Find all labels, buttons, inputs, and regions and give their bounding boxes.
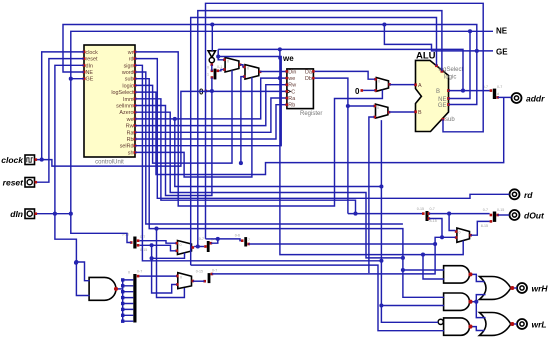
node G2-lower junction (379, 303, 383, 307)
wire AND A1 out to SP2 (118, 288, 123, 290)
svg-text:0: 0 (180, 243, 182, 247)
node muxC-out junction (196, 244, 200, 248)
node NE-label junction (468, 29, 472, 33)
wire mux MC out to S3 (194, 246, 204, 248)
svg-text:0: 0 (227, 60, 229, 64)
wire S2 out1 to mux MC in0 (140, 241, 176, 244)
svg-text:A: A (418, 83, 422, 89)
svg-text:sh: sh (128, 150, 134, 156)
wire net Ra (135, 98, 286, 132)
mux MC (175, 241, 194, 255)
svg-text:dOut: dOut (524, 211, 545, 221)
wire S2 out2 to junction and mux MC in1 (140, 245, 176, 251)
svg-text:dIn: dIn (86, 63, 94, 69)
svg-text:selImm: selImm (116, 104, 134, 110)
wire mux MD select loop (157, 229, 185, 298)
wire net rd (to rd output) (135, 59, 510, 199)
mux M1 (ALU A input) (374, 78, 391, 92)
wire S2 branch to mux MD select (152, 245, 177, 293)
svg-text:reset: reset (3, 178, 24, 188)
wire G2 out to O1 and O2 (472, 295, 485, 302)
node sign junction (379, 259, 383, 263)
input reset (3, 178, 37, 188)
node Db junction (346, 104, 350, 108)
svg-text:0: 0 (459, 231, 461, 235)
svg-text:0-7: 0-7 (497, 85, 502, 89)
svg-text:sign: sign (124, 63, 134, 69)
wire net logSelect (to addr feedback line) (135, 92, 504, 174)
svg-text:we: we (126, 117, 134, 123)
wire net clock (37, 52, 84, 160)
svg-text:Rb: Rb (288, 103, 295, 109)
svg-text:0: 0 (247, 67, 249, 71)
svg-text:0: 0 (355, 87, 360, 96)
constant 0 (near NOT gate) (199, 88, 207, 97)
svg-text:C: C (291, 89, 295, 95)
wire net GE-label branch (384, 25, 493, 51)
node muxC-sel junction (150, 256, 154, 260)
svg-text:0-7: 0-7 (137, 270, 142, 274)
svg-text:Azero: Azero (119, 110, 133, 116)
node dIn-AND junction (74, 260, 78, 264)
svg-text:B: B (436, 89, 440, 95)
AND gate A1 (bottom left) (89, 277, 118, 300)
wire Da to mux M1 in0 (315, 71, 375, 79)
svg-text:1: 1 (207, 72, 209, 76)
OR gate O1 (wrH) (480, 277, 515, 300)
svg-text:B: B (418, 110, 422, 116)
svg-text:rd: rd (524, 190, 533, 200)
svg-text:0: 0 (207, 66, 209, 70)
svg-text:8-15: 8-15 (430, 219, 437, 223)
wire net reset (37, 59, 84, 183)
node dIn-CU junction (53, 212, 57, 216)
svg-text:controlUnit: controlUnit (95, 160, 124, 166)
node we-register junction (278, 76, 282, 80)
Register U2 (286, 69, 323, 117)
wire net Rb (135, 105, 286, 139)
wire net sign (135, 65, 381, 260)
svg-text:Da: Da (305, 69, 312, 75)
splitter S2 (16 to 8/8) (122, 233, 147, 252)
mux MB (243, 65, 262, 80)
node muxA-in0 junction (216, 54, 220, 58)
svg-text:wrH: wrH (532, 284, 549, 294)
svg-text:sub: sub (125, 77, 134, 83)
node S3-S4 junction (216, 237, 220, 241)
wire net logic (to mux MA select) (135, 70, 232, 163)
wire S7 out to dOut (498, 214, 510, 216)
node S2 junction (150, 243, 154, 247)
mux MD (176, 273, 194, 289)
svg-text:Din: Din (288, 69, 296, 75)
wire G1 out to O1 (472, 274, 484, 281)
wire net selRd (to G2 upper) (135, 49, 281, 145)
svg-text:Ra: Ra (288, 96, 295, 102)
wire mux MB out to Register Din (260, 71, 285, 73)
splitter S8 (on dOut bus) (417, 207, 437, 223)
wire SP2 out to mux MD in0 (139, 275, 176, 277)
svg-text:rd: rd (129, 57, 134, 63)
node we-top junction (278, 47, 282, 51)
NAND gate G3 (inverted upper input) (438, 318, 472, 335)
AND gate G1 (444, 266, 473, 283)
svg-text:wr: wr (127, 50, 134, 56)
node S8-mux junction (440, 235, 444, 239)
svg-text:0-15: 0-15 (196, 269, 203, 273)
wire mux M2 in1 riser (369, 117, 374, 273)
node GE-label junction (475, 49, 479, 53)
NOT gate N1 (pointing down) (208, 51, 215, 66)
wire S3 out to S4 (211, 239, 241, 243)
node S4-S5 junction (433, 242, 437, 246)
node muxB-in1 junction (239, 161, 243, 165)
node Imm bus junction (353, 212, 357, 216)
wire net logic-top (to G3 area) (198, 11, 442, 247)
svg-text:0-7: 0-7 (430, 207, 435, 211)
wire net logSelect-top (ALU logSelect pin) (191, 18, 437, 266)
wire net sub (to G1 upper) (135, 79, 444, 298)
svg-text:logic: logic (444, 75, 456, 81)
wire const 0 to selImm line (207, 90, 212, 92)
wire S4 out long (249, 243, 436, 245)
wire mux MA in0 branch (218, 57, 223, 60)
wire net controlUnit dIn feed (to AND) (55, 65, 90, 295)
wire mux MC select (152, 253, 185, 259)
node Azero-sub junction (401, 256, 405, 260)
node G2-out junction (474, 300, 478, 304)
svg-text:d: d (497, 92, 499, 96)
svg-text:GE: GE (438, 103, 447, 109)
svg-text:0-6: 0-6 (235, 233, 240, 237)
input dIn (10, 209, 37, 219)
output addr (512, 93, 546, 104)
splitter SP2 (8x1 to bus, right of AND) (121, 270, 142, 323)
svg-text:0-15: 0-15 (497, 208, 504, 212)
svg-text:Rb: Rb (127, 137, 134, 143)
svg-text:wrL: wrL (532, 320, 547, 330)
controlUnit U1 (83, 45, 137, 166)
svg-text:word: word (121, 70, 134, 76)
svg-text:sub: sub (445, 117, 455, 123)
splitter S6 (near addr) (483, 85, 502, 99)
svg-text:0: 0 (180, 275, 182, 279)
svg-text:0-7: 0-7 (199, 237, 204, 241)
wire mux M2 out to ALU B (389, 111, 415, 113)
node dOut bus junction (447, 212, 451, 216)
wire net Imm (data bus to dOut) (135, 99, 356, 214)
wire net selImm (to splitter SP1) (135, 78, 212, 196)
node clock junction (40, 158, 44, 162)
wire ALU B out to splitter S6 (449, 90, 490, 92)
wire net we (label, register, M3 select) (135, 78, 286, 119)
splitter S3 (199, 237, 216, 252)
svg-text:GE: GE (496, 48, 508, 57)
ALU U3 (414, 51, 463, 132)
svg-text:0-7: 0-7 (212, 269, 217, 273)
node GE-branch junction (382, 22, 386, 26)
svg-text:0: 0 (128, 271, 130, 275)
svg-text:Rw: Rw (288, 83, 296, 89)
wire G2 lower feed (381, 305, 444, 307)
splitter S4 (235, 233, 250, 246)
node GE-dIn junction (69, 77, 73, 81)
wire S6 out to addr (498, 96, 512, 98)
mux MA (223, 58, 242, 73)
wire SP1 out to mux MA in1 (219, 70, 223, 71)
input clock (1, 155, 37, 165)
node ALU-B-out junction (461, 89, 465, 93)
svg-text:we: we (282, 54, 294, 63)
wire O2 out to wrL (514, 323, 517, 325)
wire S8 out2 to mux M3 in1 (429, 219, 442, 238)
svg-text:NE: NE (496, 27, 508, 36)
svg-text:logic: logic (122, 83, 133, 89)
svg-text:logSelect: logSelect (111, 90, 134, 96)
output dOut (510, 210, 545, 221)
svg-text:GE: GE (86, 77, 94, 83)
wire G3 out to O2 (472, 327, 484, 331)
wire mux M2 select (long rail to G3) (381, 120, 438, 322)
svg-text:we: we (287, 76, 295, 82)
svg-text:7: 7 (248, 238, 250, 242)
svg-text:8-15: 8-15 (481, 224, 488, 228)
svg-text:reset: reset (86, 57, 98, 63)
svg-text:clock: clock (1, 155, 24, 165)
svg-text:Ra: Ra (127, 130, 134, 136)
node G1-upper junction (401, 268, 405, 272)
svg-text:dIn: dIn (10, 209, 23, 219)
wire const 0 to mux M1 in1 (363, 89, 375, 91)
output wrL (517, 319, 547, 330)
wire NOT output to SP1 (211, 65, 213, 71)
wire mux M3 out to S7 (471, 221, 490, 235)
svg-text:0-15: 0-15 (417, 207, 424, 211)
svg-text:Rw: Rw (126, 124, 134, 130)
AND gate G2 (444, 293, 473, 310)
node mux2-sel junction (173, 117, 177, 121)
node we-G1 junction (421, 253, 425, 257)
wire net sh (to mux MB select) (135, 77, 252, 177)
wire mux M1 out to ALU A (390, 84, 415, 86)
svg-text:ALU: ALU (416, 51, 436, 62)
node AND upper branch (74, 261, 78, 265)
wire net wr (to mux M1 select) (135, 52, 382, 206)
svg-text:addr: addr (526, 94, 545, 104)
splitter SP1 (below NOT) (207, 65, 222, 80)
svg-text:clock: clock (86, 50, 99, 56)
wire net dIn-connector (down left rail) (71, 79, 131, 243)
wire S5 out to mux M3 in1 (212, 237, 456, 274)
splitter S5 (196, 269, 217, 284)
svg-text:0-7: 0-7 (483, 208, 488, 212)
node dIn junction (69, 212, 73, 216)
wire mux MA out to mux MB in0 (240, 65, 243, 67)
constant 0 (near mux M1) (355, 87, 363, 96)
svg-text:8-15: 8-15 (140, 248, 147, 252)
svg-text:Imm: Imm (123, 97, 134, 103)
svg-text:Register: Register (300, 111, 322, 117)
node mux2-sel tee (379, 184, 383, 188)
svg-text:Db: Db (305, 76, 312, 82)
svg-text:selRd: selRd (120, 144, 134, 150)
wire Db to mux M2 in0 and splitter S8 (315, 78, 348, 214)
net label we (278, 54, 294, 63)
wire net word (135, 72, 403, 224)
wire net dIn (37, 213, 71, 215)
splitter S7 (near dOut) (481, 208, 504, 228)
node NE-NOT junction (210, 22, 214, 26)
wire mux MB in1 riser (241, 77, 244, 164)
svg-text:NE: NE (86, 70, 94, 76)
wire mux MD out to S5 (193, 280, 205, 282)
wire net Azero (to G3 lower) (135, 112, 403, 258)
wire net sub-top (ALU sub via top) (206, 3, 484, 239)
svg-text:0: 0 (377, 106, 379, 110)
mux M3 (dOut mux) (455, 228, 472, 242)
output rd (510, 189, 534, 200)
wire O1 out to wrH (514, 287, 517, 289)
svg-text:0-1: 0-1 (217, 65, 222, 69)
svg-text:0: 0 (378, 80, 380, 84)
mux M2 (ALU B input) (373, 104, 390, 118)
wire net NE-in (comparator to controlUnit NE) (63, 25, 477, 105)
OR gate O2 (wrL) (480, 313, 515, 336)
node sub-rail junction (154, 227, 158, 231)
node const0 junction (210, 89, 214, 93)
wire net NE-label (controlUnit GE input) (71, 31, 493, 78)
wire net Rw (135, 85, 286, 126)
output wrH (517, 283, 548, 294)
